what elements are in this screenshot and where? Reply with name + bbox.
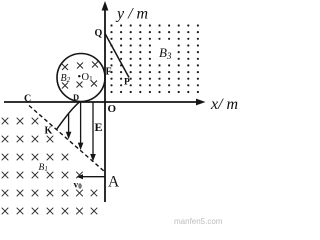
svg-text:O1: O1 bbox=[82, 72, 94, 83]
svg-text:E: E bbox=[95, 120, 103, 134]
svg-text:v0: v0 bbox=[74, 181, 83, 191]
initial velocity v0 arrow bbox=[77, 174, 105, 179]
field region B3 dots (out of page) bbox=[110, 24, 199, 93]
E field arrow 3 bbox=[92, 103, 94, 157]
dashed boundary line C to A bbox=[29, 106, 105, 172]
field region B1 crosses (into page) bbox=[2, 118, 98, 215]
svg-text:manfen5.com: manfen5.com bbox=[174, 217, 223, 226]
E field arrow 1 bbox=[68, 114, 70, 134]
circle center O1 bbox=[78, 75, 80, 77]
y-axis bbox=[102, 1, 109, 202]
svg-text:B1: B1 bbox=[39, 163, 48, 173]
svg-text:K: K bbox=[45, 126, 53, 137]
svg-text:F: F bbox=[106, 67, 112, 78]
svg-text:y / m: y / m bbox=[115, 6, 148, 23]
x-axis bbox=[4, 99, 206, 106]
field boundary circle of region B2 bbox=[57, 54, 105, 102]
svg-text:B2: B2 bbox=[61, 73, 71, 84]
svg-text:Q: Q bbox=[95, 28, 103, 39]
svg-text:O: O bbox=[108, 103, 117, 115]
trajectory arc from D to K bbox=[57, 101, 81, 129]
svg-text:B3: B3 bbox=[159, 45, 172, 61]
svg-text:P: P bbox=[124, 78, 130, 88]
svg-text:D: D bbox=[73, 92, 79, 102]
B2 interior crosses (into page) bbox=[62, 62, 98, 89]
svg-text:A: A bbox=[108, 174, 120, 191]
E field arrow 2 bbox=[80, 103, 82, 146]
svg-text:x/ m: x/ m bbox=[210, 96, 238, 113]
chord line Q to P bbox=[105, 34, 129, 78]
svg-text:C: C bbox=[24, 94, 31, 105]
